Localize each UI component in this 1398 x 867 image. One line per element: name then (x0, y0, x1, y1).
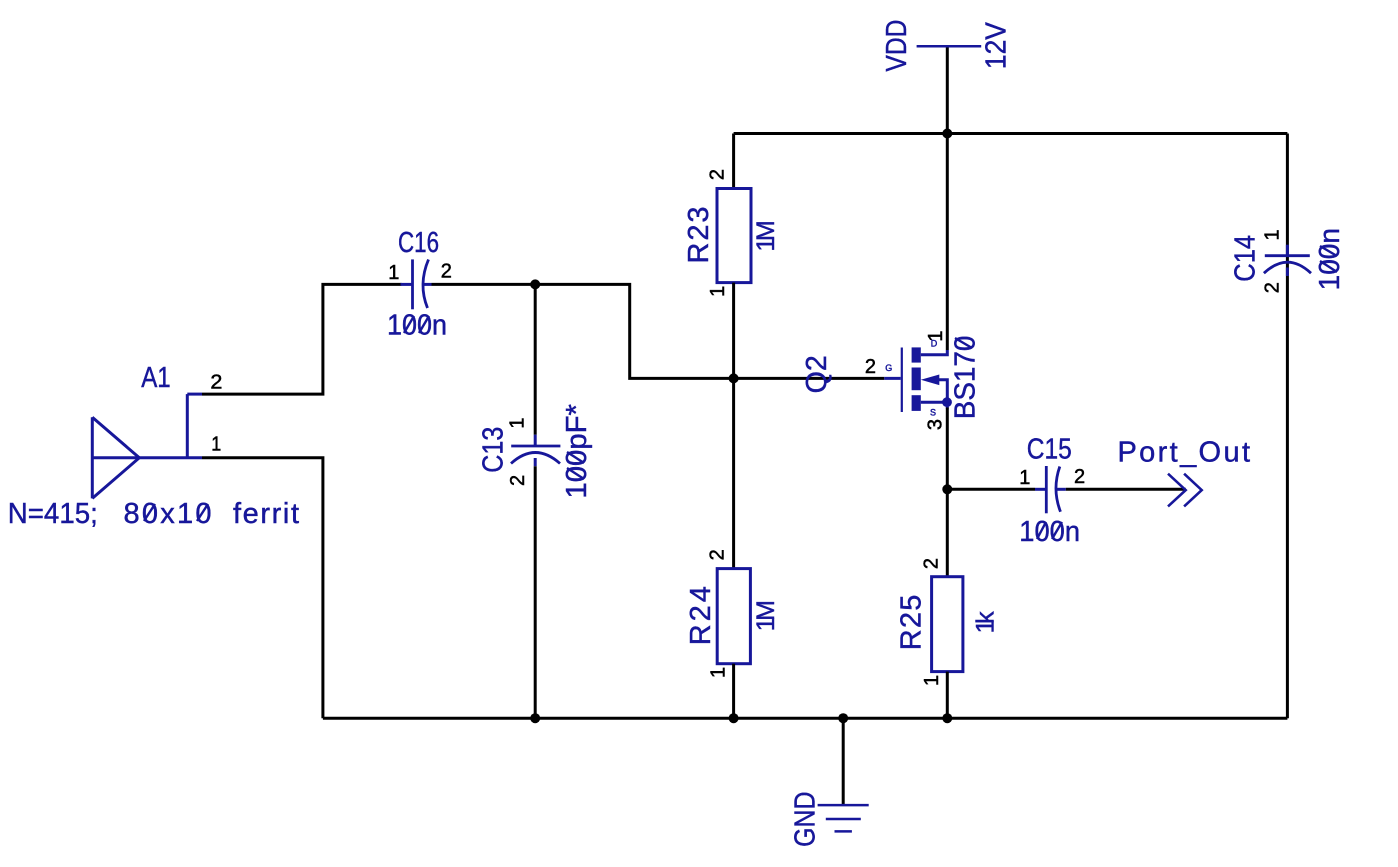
svg-text:2: 2 (920, 558, 942, 569)
svg-text:3: 3 (925, 419, 947, 430)
junction top rail / VDD (942, 129, 952, 139)
wire source to output node (946, 408, 949, 490)
svg-text:2: 2 (1262, 282, 1284, 293)
svg-text:1: 1 (506, 417, 528, 428)
svg-text:100n: 100n (387, 310, 447, 342)
wire output node to C15 (947, 488, 1035, 491)
svg-text:2: 2 (707, 549, 729, 560)
svg-text:BS170: BS170 (949, 336, 981, 420)
svg-text:C16: C16 (398, 227, 439, 259)
transistor Q2 BS170 (884, 347, 952, 412)
wire antenna pin2 to C16 (202, 284, 402, 394)
wire R25 to bottom rail (946, 672, 949, 719)
wire C15 to port (1066, 488, 1186, 491)
wire top rail (734, 132, 1288, 135)
svg-text:1: 1 (211, 433, 221, 455)
junction GND tap (838, 713, 848, 723)
svg-text:1: 1 (708, 667, 730, 678)
svg-text:R24: R24 (685, 586, 717, 645)
wire gate node down to R24 (732, 378, 735, 568)
capacitor C14 (1264, 245, 1311, 276)
svg-text:R25: R25 (896, 595, 928, 651)
svg-text:1: 1 (921, 675, 943, 686)
junction gate node (729, 373, 739, 383)
resistor R23 (717, 189, 751, 283)
junction C16 node (530, 279, 540, 289)
antenna A1 (92, 394, 202, 498)
capacitor C16 (401, 259, 432, 309)
svg-text:C15: C15 (1027, 434, 1072, 466)
svg-text:S: S (930, 408, 936, 418)
wire C16 node down to C13 (534, 284, 537, 434)
wire top rail to R23 (732, 134, 735, 189)
junction R25 bottom (942, 713, 952, 723)
wire bottom rail (323, 717, 1288, 720)
svg-text:12V: 12V (980, 22, 1012, 70)
wire R24 to bottom rail (732, 664, 735, 719)
svg-text:C14: C14 (1229, 235, 1261, 282)
wire R23 to gate node (732, 283, 735, 379)
supply symbol VDD (917, 45, 982, 48)
wire C16 to gate node (432, 284, 885, 378)
wire antenna pin1 to bottom rail (202, 458, 323, 718)
svg-text:N=415;: N=415; (8, 498, 98, 530)
junction R24 bottom (729, 713, 739, 723)
svg-text:Port_Out: Port_Out (1118, 437, 1251, 469)
svg-text:VDD: VDD (881, 20, 913, 72)
ground GND (818, 805, 869, 831)
svg-text:1M: 1M (752, 600, 780, 631)
wire C13 to bottom rail (534, 466, 537, 718)
wire GND stem (842, 718, 845, 805)
svg-text:2: 2 (1074, 466, 1085, 488)
svg-text:100n: 100n (1019, 516, 1080, 548)
capacitor C15 (1035, 466, 1066, 513)
wire VDD stem (946, 48, 949, 134)
junction output node (942, 484, 952, 494)
wire output node down to R25 (946, 489, 949, 576)
svg-text:D: D (931, 339, 938, 349)
svg-text:2: 2 (865, 356, 876, 378)
svg-text:2: 2 (441, 260, 452, 282)
junction C13 bottom (530, 713, 540, 723)
wire right rail (1286, 134, 1289, 719)
wire drain to top rail (946, 134, 949, 351)
svg-text:Q2: Q2 (801, 355, 833, 393)
svg-text:1: 1 (1262, 229, 1284, 240)
svg-text:80x10: 80x10 (124, 498, 212, 530)
svg-text:1M: 1M (752, 220, 780, 251)
svg-text:R23: R23 (683, 207, 715, 264)
svg-text:ferrit: ferrit (233, 498, 299, 530)
svg-text:2: 2 (707, 169, 729, 180)
svg-text:1: 1 (388, 262, 399, 284)
svg-text:1k: 1k (972, 611, 1000, 634)
svg-text:100n: 100n (1314, 228, 1346, 290)
capacitor C13 (511, 435, 560, 467)
svg-text:1: 1 (1019, 467, 1030, 489)
svg-text:A1: A1 (141, 362, 171, 394)
resistor R25 (932, 577, 963, 672)
svg-text:1: 1 (707, 286, 729, 297)
svg-text:GND: GND (789, 792, 821, 847)
port Port_Out (1168, 474, 1202, 507)
svg-text:2: 2 (507, 475, 529, 486)
svg-text:G: G (885, 363, 892, 373)
resistor R24 (717, 569, 750, 664)
svg-text:100pF*: 100pF* (561, 404, 593, 499)
svg-text:2: 2 (210, 372, 222, 394)
svg-text:C13: C13 (477, 427, 509, 473)
